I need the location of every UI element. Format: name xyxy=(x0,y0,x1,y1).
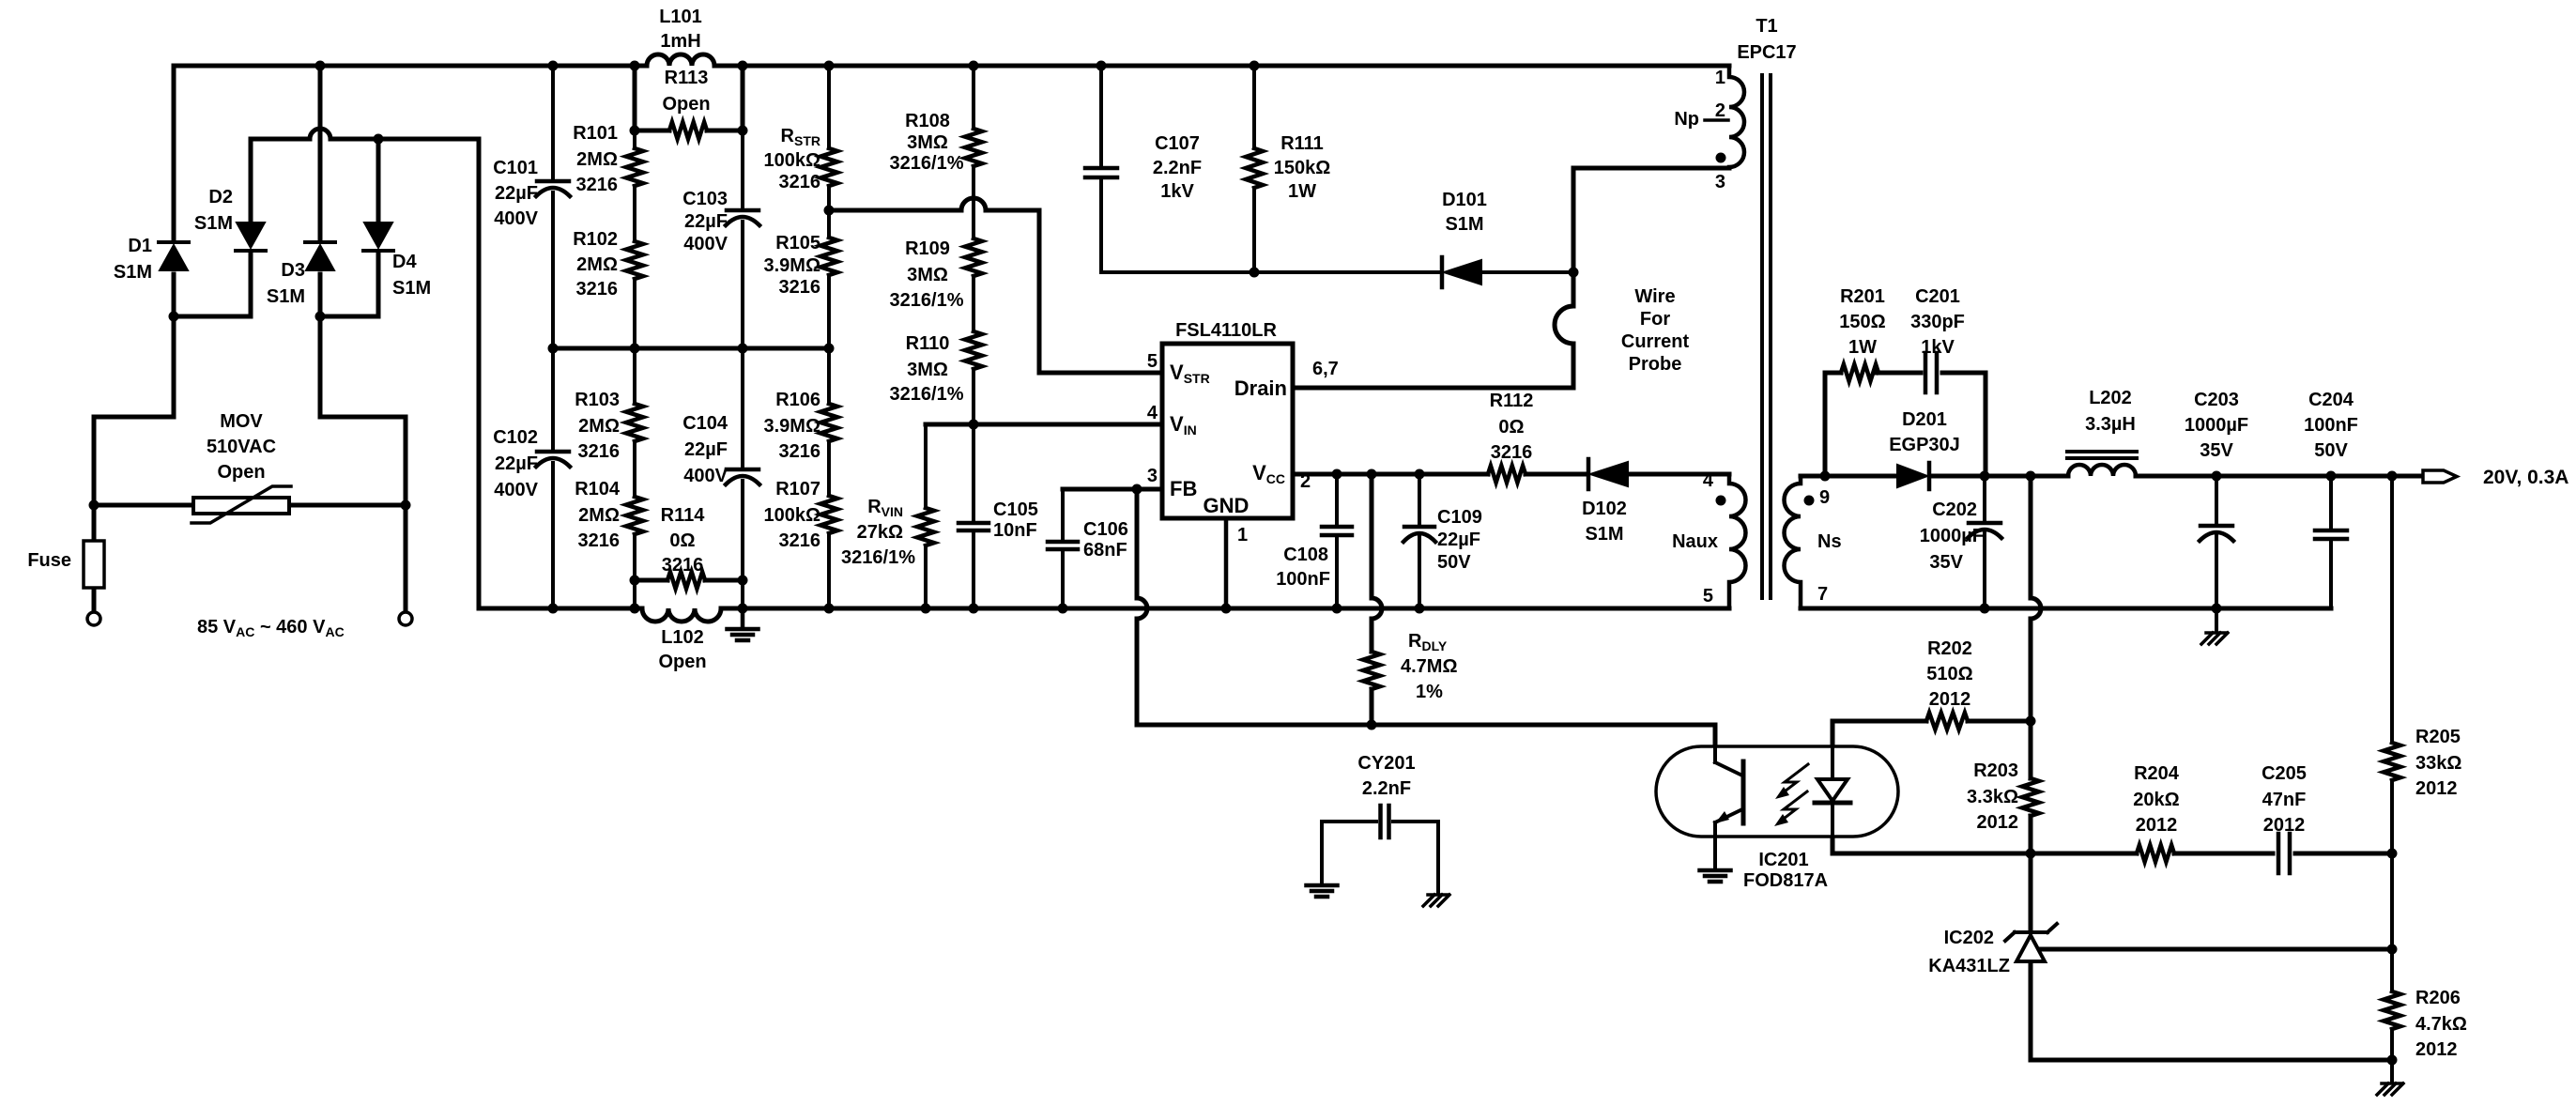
junction FB node xyxy=(1132,484,1142,495)
svg-text:2MΩ: 2MΩ xyxy=(578,416,620,437)
capacitor C102 22uF 400V xyxy=(493,427,570,500)
fuse F1 xyxy=(27,541,104,588)
capacitor C106 68nF xyxy=(1048,519,1128,561)
wire R103/R104 divider column xyxy=(633,348,636,608)
svg-text:Ns: Ns xyxy=(1817,531,1842,552)
svg-text:R114: R114 xyxy=(661,505,706,526)
wire TL431 anode to ground line xyxy=(2031,963,2392,1060)
svg-text:3216/1%: 3216/1% xyxy=(841,547,915,568)
svg-text:1kV: 1kV xyxy=(1160,181,1194,202)
capacitor C107 2.2nF xyxy=(1085,133,1202,202)
ground chassis at output divider xyxy=(2377,1060,2403,1095)
svg-text:Open: Open xyxy=(658,652,706,672)
wire C105 column xyxy=(972,424,975,608)
resistor RSTR 100k xyxy=(763,126,837,192)
svg-text:S1M: S1M xyxy=(1585,524,1623,545)
svg-text:R104: R104 xyxy=(575,479,621,499)
resistor RDLY 4.7M 1% xyxy=(1363,631,1458,702)
resistor R110 3M xyxy=(890,331,982,405)
junction D1-D2 AC node xyxy=(169,312,179,322)
svg-text:R202: R202 xyxy=(1927,638,1972,659)
svg-text:C101: C101 xyxy=(493,158,538,178)
svg-text:R107: R107 xyxy=(775,479,820,499)
svg-text:C203: C203 xyxy=(2194,390,2239,410)
wire AC line 1 (node to fuse) xyxy=(94,316,174,541)
svg-text:T1: T1 xyxy=(1756,16,1777,37)
svg-text:3.9MΩ: 3.9MΩ xyxy=(764,255,821,276)
pin 6,7 Drain label xyxy=(1234,359,1339,400)
svg-text:C205: C205 xyxy=(2262,763,2307,784)
wire opto LED cathode to R204/C205 line xyxy=(1832,804,2392,853)
wire FB to secondary feedback line xyxy=(1137,489,1715,725)
wire C202 column xyxy=(1983,476,1986,608)
svg-text:Open: Open xyxy=(662,94,710,115)
svg-text:FOD817A: FOD817A xyxy=(1743,870,1828,891)
svg-text:C202: C202 xyxy=(1932,499,1977,520)
wire TL431 cathode leg xyxy=(2029,853,2033,931)
svg-text:47nF: 47nF xyxy=(2262,790,2307,810)
wire opto collector leg xyxy=(1713,725,1718,762)
svg-text:R112: R112 xyxy=(1490,391,1534,411)
capacitor C201 330pF 1kV xyxy=(1910,286,1965,392)
capacitor C108 100nF xyxy=(1276,527,1352,590)
wire R205 column xyxy=(2390,476,2394,853)
svg-text:3216: 3216 xyxy=(662,555,704,576)
svg-text:4.7MΩ: 4.7MΩ xyxy=(1401,656,1458,677)
capacitor C205 47nF xyxy=(2262,763,2307,873)
svg-text:1W: 1W xyxy=(1848,337,1877,358)
resistor R106 3.9M xyxy=(764,390,838,462)
junctions on secondary ground line xyxy=(1980,604,2222,614)
optocoupler light arrows xyxy=(1774,764,1808,826)
wire fuse to terminal xyxy=(92,588,97,611)
svg-text:D101: D101 xyxy=(1442,190,1487,210)
svg-text:D1: D1 xyxy=(128,236,152,256)
IC U1 FSL4110LR xyxy=(1162,320,1293,518)
AC input terminal left xyxy=(87,612,100,625)
junctions on clamp line xyxy=(1250,268,1579,278)
resistor R105 3.9M xyxy=(764,233,838,298)
svg-text:4: 4 xyxy=(1147,403,1158,423)
transformer T1 Ns winding xyxy=(1785,476,1842,608)
svg-text:Current: Current xyxy=(1621,331,1690,352)
wire R108/R109/R110 column xyxy=(972,66,975,424)
svg-text:50V: 50V xyxy=(2314,440,2348,461)
resistor R202 510 xyxy=(1926,638,1973,730)
svg-text:3216: 3216 xyxy=(779,172,821,192)
svg-text:3.3µH: 3.3µH xyxy=(2085,414,2136,435)
wire C109 column xyxy=(1418,474,1421,608)
svg-text:KA431LZ: KA431LZ xyxy=(1928,956,2010,976)
svg-text:400V: 400V xyxy=(494,480,538,500)
svg-text:EPC17: EPC17 xyxy=(1737,42,1796,63)
svg-text:Open: Open xyxy=(217,462,265,483)
svg-text:CY201: CY201 xyxy=(1357,753,1415,774)
resistor R104 2M xyxy=(575,479,643,551)
svg-text:C107: C107 xyxy=(1155,133,1200,154)
svg-text:D4: D4 xyxy=(392,252,417,272)
svg-text:Naux: Naux xyxy=(1672,531,1718,552)
svg-text:20kΩ: 20kΩ xyxy=(2133,790,2179,810)
junction MOV left xyxy=(89,500,100,511)
resistor R205 33k xyxy=(2384,727,2461,799)
svg-text:4: 4 xyxy=(1703,470,1714,491)
wire R101/R102 divider column xyxy=(633,131,636,348)
diode D1 S1M xyxy=(114,236,189,283)
wire VIN line xyxy=(926,422,1162,427)
junctions on top DC bus xyxy=(315,61,1260,71)
svg-text:27kΩ: 27kΩ xyxy=(857,522,903,543)
wire secondary output line xyxy=(1801,474,2420,479)
svg-text:1kV: 1kV xyxy=(1921,337,1955,358)
svg-text:400V: 400V xyxy=(494,208,538,229)
svg-text:3216: 3216 xyxy=(578,530,621,551)
svg-text:R101: R101 xyxy=(573,123,618,144)
svg-text:EGP30J: EGP30J xyxy=(1889,435,1960,455)
wire CY201 left leg xyxy=(1320,822,1324,883)
svg-text:S1M: S1M xyxy=(267,286,305,307)
diode D2 S1M xyxy=(194,187,266,251)
svg-text:85 VAC ~ 460 VAC: 85 VAC ~ 460 VAC xyxy=(197,617,345,639)
svg-text:IC201: IC201 xyxy=(1758,850,1808,870)
svg-text:50V: 50V xyxy=(1437,552,1471,573)
svg-text:C201: C201 xyxy=(1915,286,1960,307)
svg-text:R105: R105 xyxy=(775,233,820,253)
svg-text:C109: C109 xyxy=(1437,507,1482,528)
resistor R101 2M xyxy=(573,123,643,195)
svg-text:68nF: 68nF xyxy=(1083,540,1127,561)
svg-text:C108: C108 xyxy=(1283,545,1328,565)
junctions on bottom primary rail xyxy=(548,604,1425,614)
pin 5 VSTR label xyxy=(1147,351,1210,386)
wire C102 column xyxy=(551,348,555,608)
svg-text:22µF: 22µF xyxy=(495,183,538,204)
junction R202/R203 node xyxy=(2026,716,2036,727)
resistor R203 3.3k xyxy=(1967,760,2039,833)
ground chassis at C203 xyxy=(2201,608,2228,644)
svg-text:3: 3 xyxy=(1715,172,1725,192)
svg-text:D102: D102 xyxy=(1582,499,1627,519)
diode D101 S1M xyxy=(1442,190,1487,287)
wire opto LED anode leg xyxy=(1831,721,1835,778)
svg-text:R102: R102 xyxy=(573,229,618,250)
svg-text:GND: GND xyxy=(1204,494,1250,517)
resistor R107 100k xyxy=(763,479,837,551)
svg-text:510Ω: 510Ω xyxy=(1926,664,1972,684)
resistor R111 150k 1W xyxy=(1246,133,1330,202)
svg-text:33kΩ: 33kΩ xyxy=(2415,753,2461,774)
junction MOV right xyxy=(401,500,411,511)
svg-text:3216: 3216 xyxy=(576,279,619,300)
svg-text:7: 7 xyxy=(1817,584,1828,605)
wire D1 cathode leg xyxy=(172,66,176,241)
svg-text:R110: R110 xyxy=(906,333,950,354)
svg-text:2MΩ: 2MΩ xyxy=(578,505,620,526)
svg-text:3216/1%: 3216/1% xyxy=(890,384,964,405)
wire secondary ground line xyxy=(1801,607,2331,611)
svg-text:0Ω: 0Ω xyxy=(1498,417,1524,438)
wire R114 bypass xyxy=(635,578,743,583)
svg-text:2MΩ: 2MΩ xyxy=(576,254,618,275)
junction RDLY bottom on feedback line xyxy=(1367,720,1377,730)
svg-text:FSL4110LR: FSL4110LR xyxy=(1175,320,1277,341)
junction D4 anode xyxy=(374,134,384,145)
wire R201/C201 snubber loop xyxy=(1825,373,1986,476)
wire R106/R107 column xyxy=(827,348,831,608)
capacitor C202 1000uF 35V xyxy=(1920,499,2001,573)
wire C106 column xyxy=(1061,489,1065,608)
wire D2 leg xyxy=(249,139,253,220)
svg-text:3MΩ: 3MΩ xyxy=(907,132,948,153)
svg-text:R111: R111 xyxy=(1280,133,1324,154)
wire RVIN column xyxy=(924,424,928,608)
wire D3 leg xyxy=(318,66,323,241)
inductor L102 xyxy=(642,608,721,672)
svg-text:3216: 3216 xyxy=(779,441,821,462)
capacitor C109 22uF 50V xyxy=(1403,507,1482,573)
wire R202 line (Vout bias to opto LED) xyxy=(1832,719,2031,724)
svg-text:S1M: S1M xyxy=(194,213,233,234)
wire feedback column upper (Vout to R202 node) xyxy=(2031,476,2041,721)
wire D1 anode to AC node xyxy=(172,274,176,316)
capacitor C203 1000uF 35V xyxy=(2185,390,2248,541)
pin 1 GND label xyxy=(1204,494,1250,545)
svg-text:Fuse: Fuse xyxy=(27,550,71,571)
svg-text:1%: 1% xyxy=(1416,682,1443,702)
svg-text:3216/1%: 3216/1% xyxy=(890,290,964,311)
wire CY201 right leg xyxy=(1436,822,1440,894)
ground chassis at CY201 xyxy=(1423,895,1449,906)
svg-text:For: For xyxy=(1640,309,1670,330)
wire FB line xyxy=(1063,487,1162,492)
svg-text:R205: R205 xyxy=(2415,727,2461,747)
inductor L202 3.3uH xyxy=(2067,388,2137,476)
svg-text:R113: R113 xyxy=(665,68,709,88)
svg-text:35V: 35V xyxy=(2200,440,2233,461)
svg-text:C106: C106 xyxy=(1083,519,1128,540)
resistor RVIN 27k xyxy=(841,497,934,568)
svg-text:510VAC: 510VAC xyxy=(207,437,276,457)
svg-text:100kΩ: 100kΩ xyxy=(763,505,820,526)
resistor R113 Open xyxy=(662,68,710,139)
junction TL431 ref xyxy=(2387,945,2398,955)
svg-text:400V: 400V xyxy=(683,466,728,486)
wire D4 cathode to AC node xyxy=(320,252,378,316)
svg-text:2012: 2012 xyxy=(2415,1039,2458,1060)
svg-text:35V: 35V xyxy=(1929,552,1963,573)
svg-text:6,7: 6,7 xyxy=(1312,359,1339,379)
wire for current probe loop xyxy=(1555,272,1689,388)
wire transformer pin 3 to clamp node xyxy=(1573,168,1729,272)
wire R113 bypass xyxy=(635,66,743,131)
svg-text:100nF: 100nF xyxy=(1276,569,1330,590)
capacitor CY201 2.2nF xyxy=(1322,753,1438,837)
pin 2 VCC label xyxy=(1252,461,1311,492)
svg-text:100kΩ: 100kΩ xyxy=(763,150,820,171)
svg-text:C104: C104 xyxy=(682,413,728,434)
wire IC GND pin 1 leg xyxy=(1224,518,1229,608)
svg-text:R206: R206 xyxy=(2415,988,2461,1008)
svg-text:2.2nF: 2.2nF xyxy=(1153,158,1202,178)
resistor R201 150 1W xyxy=(1839,286,1885,381)
svg-text:D201: D201 xyxy=(1902,409,1947,430)
capacitor C204 100nF 50V xyxy=(2304,390,2358,539)
svg-text:R201: R201 xyxy=(1840,286,1885,307)
wire output stub xyxy=(2392,474,2420,479)
junctions on secondary output line xyxy=(1820,471,2398,482)
svg-text:C204: C204 xyxy=(2308,390,2354,410)
svg-text:0Ω: 0Ω xyxy=(669,530,695,551)
resistor R204 20k xyxy=(2133,763,2179,862)
svg-text:2.2nF: 2.2nF xyxy=(1362,778,1411,799)
wire R205/R206 mid leg xyxy=(2390,853,2394,991)
svg-text:22µF: 22µF xyxy=(1437,530,1480,550)
svg-text:2: 2 xyxy=(1715,100,1725,121)
svg-text:D2: D2 xyxy=(208,187,233,207)
transformer T1 EPC17 Np winding xyxy=(1674,66,1744,192)
svg-text:2012: 2012 xyxy=(1977,812,2019,833)
svg-text:L101: L101 xyxy=(659,7,702,27)
svg-text:3216/1%: 3216/1% xyxy=(890,153,964,174)
svg-text:MOV: MOV xyxy=(220,411,263,432)
resistor R109 3M xyxy=(890,238,982,311)
junctions on mid DC bus xyxy=(548,344,835,354)
shunt regulator IC202 KA431LZ xyxy=(1928,924,2057,976)
wire C203 column xyxy=(2215,476,2218,608)
svg-text:S1M: S1M xyxy=(1445,214,1483,235)
svg-text:R103: R103 xyxy=(575,390,620,410)
wire startup tap to VSTR pin xyxy=(829,198,1162,373)
svg-text:2: 2 xyxy=(1300,471,1311,492)
resistor R102 2M xyxy=(573,229,643,300)
svg-text:1W: 1W xyxy=(1288,181,1316,202)
wire R111 column xyxy=(1252,66,1256,272)
inductor L101 xyxy=(647,7,714,66)
svg-text:2MΩ: 2MΩ xyxy=(576,149,618,170)
svg-text:1mH: 1mH xyxy=(660,31,700,52)
diode D102 S1M xyxy=(1582,459,1628,545)
svg-text:Np: Np xyxy=(1674,109,1699,130)
diode D4 S1M xyxy=(363,223,431,299)
svg-text:C103: C103 xyxy=(682,189,728,209)
wire snubber clamp line with D101 xyxy=(1101,270,1573,274)
svg-text:10nF: 10nF xyxy=(993,520,1037,541)
junctions on R204 line xyxy=(2026,849,2398,859)
wire C101 column xyxy=(551,66,555,348)
svg-text:3216: 3216 xyxy=(578,441,621,462)
wire RSTR/R105 column xyxy=(827,66,831,348)
svg-text:C102: C102 xyxy=(493,427,538,448)
svg-text:2012: 2012 xyxy=(2415,778,2458,799)
AC input label 85VAC-460VAC xyxy=(197,617,345,639)
junction VIN node xyxy=(969,420,979,430)
wire RDLY column xyxy=(1372,474,1382,725)
svg-text:22µF: 22µF xyxy=(684,211,728,232)
resistor R114 0ohm xyxy=(661,505,706,589)
svg-text:R106: R106 xyxy=(775,390,820,410)
ground earth at L102 node xyxy=(728,608,759,640)
diode D201 EGP30J xyxy=(1889,409,1960,489)
svg-text:3216: 3216 xyxy=(576,175,619,195)
svg-text:FB: FB xyxy=(1170,477,1197,500)
wire top DC bus (D1 cathode to transformer pin 1) xyxy=(174,64,1729,69)
svg-text:3.9MΩ: 3.9MΩ xyxy=(764,416,821,437)
svg-text:22µF: 22µF xyxy=(684,439,728,460)
svg-text:L102: L102 xyxy=(661,627,704,648)
wire R203 column xyxy=(2029,721,2033,853)
svg-text:1: 1 xyxy=(1237,525,1248,545)
svg-text:Drain: Drain xyxy=(1234,376,1287,400)
wire C104 column xyxy=(741,348,744,608)
capacitor C105 10nF xyxy=(958,499,1038,541)
capacitor C103 22uF 400V xyxy=(682,189,759,254)
junction R206 bottom xyxy=(2387,1055,2398,1066)
svg-text:R204: R204 xyxy=(2134,763,2180,784)
svg-text:1: 1 xyxy=(1715,68,1725,88)
svg-text:3.3kΩ: 3.3kΩ xyxy=(1967,787,2018,807)
svg-text:150kΩ: 150kΩ xyxy=(1274,158,1331,178)
diode D3 S1M xyxy=(267,242,335,307)
wire bottom primary rail xyxy=(479,607,1729,611)
wire AC line 2 (node to terminal) xyxy=(320,316,406,611)
svg-text:R108: R108 xyxy=(905,111,950,131)
transformer T1 Naux winding xyxy=(1672,470,1745,608)
wire D3 anode to AC node xyxy=(318,274,323,316)
ground earth at opto emitter xyxy=(1700,870,1731,882)
wire D2 cathode to AC node xyxy=(174,252,251,316)
AC input terminal right xyxy=(399,612,412,625)
resistor R206 4.7k xyxy=(2384,988,2467,1060)
svg-text:3216: 3216 xyxy=(1491,442,1533,463)
svg-text:400V: 400V xyxy=(683,234,728,254)
svg-text:S1M: S1M xyxy=(392,278,431,299)
svg-text:2012: 2012 xyxy=(1929,689,1971,710)
optocoupler IC201 FOD817A body xyxy=(1656,746,1898,891)
svg-text:2012: 2012 xyxy=(2263,815,2306,836)
svg-text:3216: 3216 xyxy=(779,277,821,298)
svg-text:3MΩ: 3MΩ xyxy=(907,360,948,380)
junctions on R114 line xyxy=(630,576,748,586)
wire drain line pins 6,7 xyxy=(1293,386,1573,391)
svg-text:3: 3 xyxy=(1147,466,1158,486)
transformer T1 core xyxy=(1737,16,1796,598)
svg-text:330pF: 330pF xyxy=(1910,312,1965,332)
svg-text:3216: 3216 xyxy=(779,530,821,551)
pin 3 FB label xyxy=(1147,466,1197,500)
svg-text:4.7kΩ: 4.7kΩ xyxy=(2415,1014,2467,1035)
resistor R112 0ohm xyxy=(1488,391,1533,483)
svg-text:L202: L202 xyxy=(2089,388,2132,408)
svg-text:1000µF: 1000µF xyxy=(2185,415,2248,436)
wire VCC line xyxy=(1293,472,1729,477)
svg-text:3MΩ: 3MΩ xyxy=(907,265,948,285)
capacitor C104 22uF 400V xyxy=(682,413,759,486)
resistor R108 3M xyxy=(890,111,982,174)
svg-text:100nF: 100nF xyxy=(2304,415,2358,436)
svg-text:Probe: Probe xyxy=(1629,354,1682,375)
junction startup tap xyxy=(824,206,835,216)
capacitor C101 22uF 400V xyxy=(493,158,570,229)
junctions on R113 line xyxy=(630,126,748,136)
svg-text:2012: 2012 xyxy=(2136,815,2178,836)
wire C107 column xyxy=(1099,66,1103,272)
junction D3-D4 AC node xyxy=(315,312,326,322)
svg-text:IC202: IC202 xyxy=(1944,928,1994,948)
wire TL431 reference line xyxy=(2038,947,2392,952)
optocoupler LED xyxy=(1815,746,1850,837)
svg-text:R109: R109 xyxy=(905,238,950,259)
svg-text:150Ω: 150Ω xyxy=(1839,312,1885,332)
